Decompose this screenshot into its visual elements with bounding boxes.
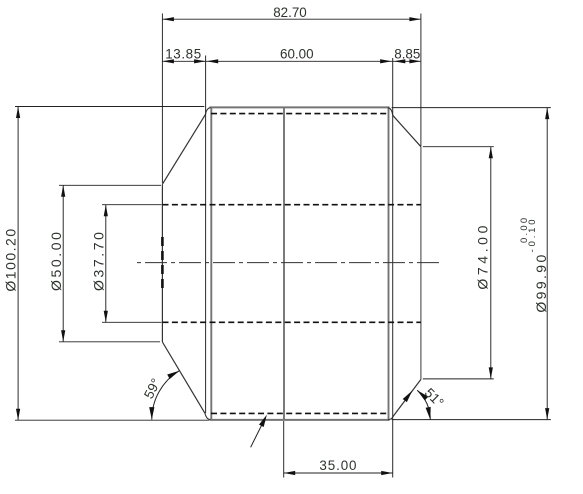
corner arc bottom-right	[388, 417, 393, 420]
extension line diameter 74 bottom	[423, 378, 494, 380]
extension line diameter 99.90 bottom	[392, 419, 551, 421]
svg-text:Ø99.90: Ø99.90	[533, 252, 549, 312]
centerline	[137, 262, 440, 264]
part body top edge	[210, 106, 390, 108]
leader arrow to hidden line	[251, 420, 265, 448]
cone-cylinder tangent edge right (gray)	[388, 107, 390, 420]
svg-text:60.00: 60.00	[280, 47, 314, 62]
part body bottom edge	[210, 419, 390, 421]
hidden bore line lower	[163, 321, 421, 323]
mid visible edge	[283, 107, 285, 420]
chamfer diagonal bottom-right	[393, 379, 421, 416]
hidden edge at left face (bold short dashes)	[161, 237, 164, 289]
dimension line 13.85	[162, 60, 205, 62]
dimension line diameter 50	[62, 185, 64, 341]
left end face	[161, 184, 163, 342]
chamfer diagonal top-right	[393, 115, 421, 146]
svg-text:13.85: 13.85	[165, 47, 202, 62]
svg-text:Ø74.00: Ø74.00	[474, 222, 490, 290]
extension line diameter 50 bottom	[59, 341, 160, 343]
corner arc top-left	[206, 108, 211, 115]
hidden bore line upper	[163, 204, 421, 206]
extension line left end (x=162.4, for 82.70/13.85)	[161, 14, 163, 184]
right end face	[420, 147, 422, 380]
dimension line diameter 74	[490, 147, 492, 379]
angle dim 51 arc	[417, 390, 430, 419]
chamfer diagonal top-left	[162, 114, 205, 184]
extension line right end (x=420.9, for 82.70/8.85)	[420, 14, 422, 147]
corner arc bottom-left	[205, 413, 211, 420]
dimension line 35.00	[284, 472, 393, 474]
extra arrowhead on chamfer diagonal	[403, 389, 415, 402]
cone-cylinder tangent edge left (gray)	[210, 107, 212, 420]
extension line diameter 74 top	[423, 146, 494, 148]
extension line diameter 37.70 bottom	[102, 321, 162, 323]
dimension line 60.00	[206, 60, 393, 62]
chamfer diagonal bottom-left	[162, 342, 205, 413]
svg-text:8.85: 8.85	[394, 47, 420, 62]
extension line diameter 50 top	[59, 184, 161, 186]
svg-text:Ø50.00: Ø50.00	[48, 229, 64, 291]
hidden line lower (near bottom edge)	[211, 412, 389, 414]
svg-text:Ø37.70: Ø37.70	[90, 229, 106, 291]
extension line 35.00 left	[283, 421, 285, 478]
angle dim 59 arc	[152, 371, 180, 420]
extension line diameter 100.20 top	[15, 106, 204, 108]
dimension line diameter 99.90	[546, 108, 548, 420]
extension line diameter 100.20 bottom	[15, 419, 209, 421]
interior tangent line right (thin) + extension down to 35.00 dim	[392, 58, 394, 478]
svg-text:82.70: 82.70	[273, 5, 307, 20]
svg-text:Ø100.20: Ø100.20	[3, 227, 19, 291]
dimension line diameter 37.70	[105, 205, 107, 323]
extension line diameter 99.90 top	[392, 107, 551, 109]
svg-text:35.00: 35.00	[319, 458, 357, 473]
interior tangent line left (thin)	[205, 56, 207, 414]
dimension line 82.70	[162, 18, 421, 20]
extension line diameter 37.70 top	[102, 204, 162, 206]
dimension line diameter 100.20	[17, 107, 19, 421]
corner arc top-right	[388, 108, 393, 116]
svg-text:-0.10: -0.10	[527, 217, 538, 253]
hidden line upper (near top edge)	[211, 113, 389, 115]
dimension line 8.85	[393, 60, 421, 62]
